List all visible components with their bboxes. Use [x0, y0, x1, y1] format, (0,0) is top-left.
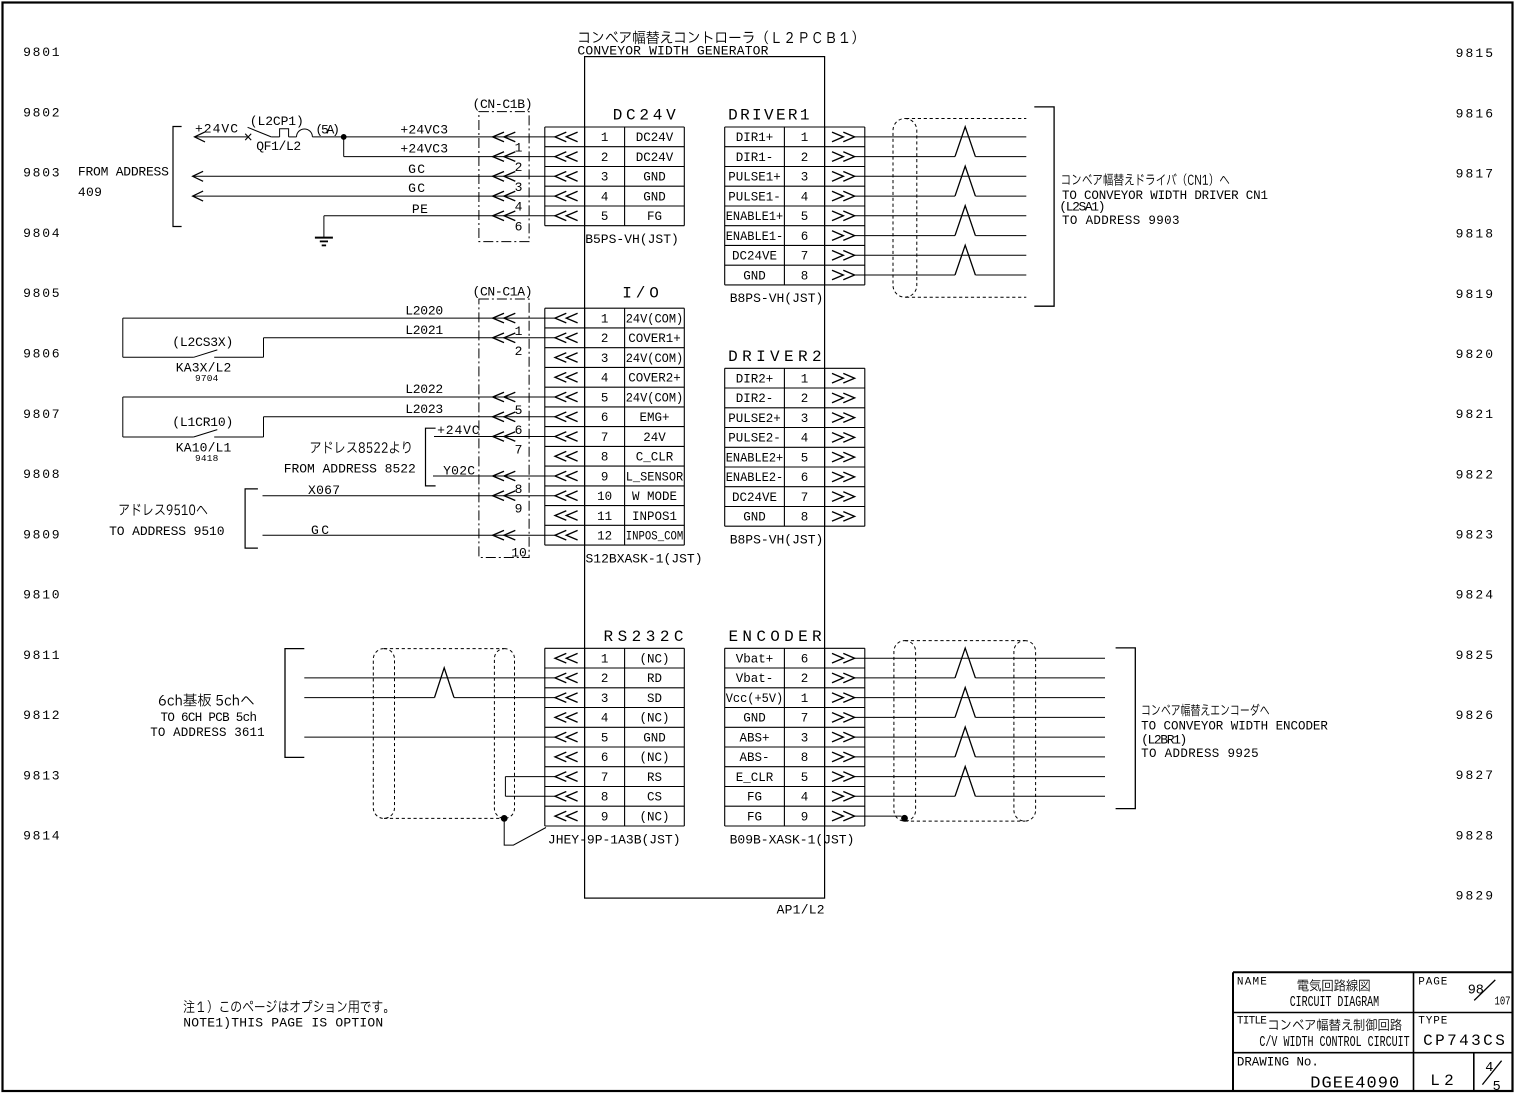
svg-text:11: 11	[597, 510, 612, 524]
svg-text:DIR1+: DIR1+	[736, 131, 774, 145]
shield dotted line top ENCODER	[905, 640, 1025, 642]
svg-text:10: 10	[511, 546, 527, 561]
RS232C pin 3 SD	[555, 693, 578, 703]
svg-text:1: 1	[801, 692, 809, 706]
svg-text:E_CLR: E_CLR	[736, 771, 774, 785]
svg-text:ENABLE1-: ENABLE1-	[726, 230, 784, 244]
document title Japanese C/V width control circuit	[1269, 1019, 1401, 1031]
svg-text:AP1/L2: AP1/L2	[777, 903, 825, 918]
svg-text:2: 2	[801, 151, 809, 165]
I/O pin 11 INPOS1	[555, 511, 578, 521]
svg-text:PULSE1-: PULSE1-	[728, 190, 781, 204]
svg-text:24V(COM): 24V(COM)	[626, 391, 684, 405]
svg-text:(NC): (NC)	[640, 712, 670, 726]
svg-text:(CN-C1A): (CN-C1A)	[473, 284, 533, 299]
svg-text:5: 5	[601, 391, 609, 405]
RS232C pin 1 (NC)	[555, 653, 578, 663]
svg-text:8: 8	[601, 451, 609, 465]
svg-text:3: 3	[601, 171, 609, 185]
note Japanese this page is option	[184, 1000, 388, 1013]
svg-text:24V(COM): 24V(COM)	[626, 312, 684, 326]
svg-text:8: 8	[801, 511, 809, 525]
I/O pin 3 24V(COM)	[555, 353, 578, 363]
svg-text:6: 6	[601, 751, 609, 765]
CN-C1A contact pin 7	[493, 432, 516, 442]
connector table I/O frame	[545, 307, 685, 309]
CN-C1B contact pin 3	[493, 172, 516, 182]
CN-C1B contact pin 4	[493, 191, 516, 201]
svg-text:3: 3	[515, 180, 523, 195]
svg-text:9809: 9809	[23, 527, 60, 542]
svg-text:L_SENSOR: L_SENSOR	[626, 470, 684, 484]
CN-C1B contact pin 1	[493, 132, 516, 142]
svg-text:S12BXASK-1(JST): S12BXASK-1(JST)	[586, 551, 703, 566]
wire +24VC3 to CN-C1B pin1	[344, 136, 555, 138]
svg-text:98: 98	[1468, 984, 1484, 999]
svg-text:ABS+: ABS+	[740, 731, 770, 745]
wire DRIVER1 pair3 signal A	[855, 215, 1027, 217]
svg-text:GND: GND	[643, 731, 666, 745]
svg-text:24V(COM): 24V(COM)	[626, 352, 684, 366]
bracket FROM ADDRESS 409	[173, 127, 182, 227]
svg-text:Y02C: Y02C	[443, 464, 475, 479]
svg-text:9704: 9704	[195, 373, 219, 384]
I/O pin 7 24V	[555, 432, 578, 442]
CN-C1A contact pin 10	[493, 530, 516, 540]
svg-text:DRIVER2: DRIVER2	[728, 348, 822, 366]
wire DRIVER1 pair2 signal B with twist	[855, 195, 955, 197]
svg-text:L2021: L2021	[405, 323, 443, 338]
ENCODER pin 6 Vbat+	[832, 653, 855, 663]
relay contact KA10/L1 (L1CR10) circuit	[122, 397, 124, 437]
svg-text:Vbat+: Vbat+	[736, 653, 774, 667]
svg-text:COVER2+: COVER2+	[628, 372, 681, 386]
svg-text:DIR2-: DIR2-	[736, 392, 774, 406]
svg-text:9804: 9804	[23, 226, 60, 241]
svg-text:3: 3	[601, 692, 609, 706]
svg-text:3: 3	[601, 352, 609, 366]
I/O pin 8 C_CLR	[555, 451, 578, 461]
svg-text:8: 8	[601, 791, 609, 805]
svg-text:L2020: L2020	[405, 303, 443, 318]
svg-text:DIR1-: DIR1-	[736, 151, 774, 165]
twisted pair symbol DRIVER1 pair4	[955, 245, 975, 275]
twisted pair symbol DRIVER1 pair1	[955, 127, 975, 157]
shield cable capsule DRIVER1	[893, 119, 917, 298]
svg-text:409: 409	[78, 185, 102, 200]
svg-text:9: 9	[515, 502, 523, 517]
svg-text:DIR2+: DIR2+	[736, 373, 774, 387]
svg-text:9801: 9801	[23, 45, 60, 60]
shield dotted line bottom ENCODER	[905, 820, 1025, 822]
svg-text:(L2BR1): (L2BR1)	[1141, 732, 1187, 747]
wire branch +24VC3 to pin2	[343, 137, 345, 157]
svg-text:1: 1	[515, 141, 523, 156]
svg-text:PAGE: PAGE	[1418, 976, 1447, 988]
svg-text:PULSE2+: PULSE2+	[728, 412, 781, 426]
svg-text:2: 2	[515, 344, 523, 359]
svg-text:TO ADDRESS 9903: TO ADDRESS 9903	[1062, 214, 1180, 228]
shield dotted line top DRIVER1	[906, 118, 1026, 120]
twisted pair symbol DRIVER1 pair2	[955, 166, 975, 196]
shield junction dot ENCODER	[901, 815, 908, 822]
RS232C pin 4 (NC)	[555, 713, 578, 723]
svg-text:2: 2	[801, 672, 809, 686]
svg-text:2: 2	[601, 151, 609, 165]
shield cable capsule right ENCODER	[1014, 641, 1036, 822]
svg-text:RD: RD	[647, 672, 662, 686]
ENCODER pin 1 Vcc(+5V)	[832, 693, 855, 703]
wire DRIVER1 pair1 signal B with twist	[855, 156, 955, 158]
svg-text:INPOS_COM: INPOS_COM	[626, 530, 684, 544]
wire ENCODER pair1 signal A	[855, 657, 1105, 659]
annotation Japanese address 9510	[120, 504, 208, 516]
svg-text:INPOS1: INPOS1	[632, 510, 677, 524]
svg-text:ENABLE1+: ENABLE1+	[726, 210, 784, 224]
CN-C1A contact pin 8	[493, 471, 516, 481]
svg-text:8: 8	[801, 269, 809, 283]
bracket to conveyor width encoder	[1116, 648, 1136, 809]
svg-text:DRAWING No.: DRAWING No.	[1237, 1056, 1319, 1070]
svg-text:6: 6	[801, 653, 809, 667]
CN-C1B contact pin 6	[493, 211, 516, 221]
svg-text:3: 3	[801, 731, 809, 745]
DRIVER2 pin 2 DIR2-	[832, 393, 855, 403]
annotation Japanese conveyor width driver CN1	[1062, 173, 1229, 185]
svg-text:8: 8	[515, 482, 523, 497]
wire ENCODER pair4 signal A	[855, 776, 1105, 778]
svg-text:4: 4	[801, 190, 809, 204]
connector shell CN-C1B chain-line box	[479, 112, 529, 242]
wire GC pin3 with left arrow	[193, 171, 204, 181]
svg-text:GND: GND	[743, 269, 766, 283]
svg-text:TO 6CH PCB 5ch: TO 6CH PCB 5ch	[161, 711, 258, 725]
svg-text:ENABLE2+: ENABLE2+	[726, 451, 784, 465]
svg-text:1: 1	[801, 373, 809, 387]
svg-text:+24VC3: +24VC3	[400, 142, 448, 157]
wire GC to CN-C1A pin12	[263, 534, 556, 536]
svg-text:JHEY-9P-1A3B(JST): JHEY-9P-1A3B(JST)	[548, 832, 681, 847]
svg-text:7: 7	[601, 431, 609, 445]
svg-text:(CN-C1B): (CN-C1B)	[473, 97, 533, 112]
wire X067 to CN-C1A pin10	[263, 495, 556, 497]
svg-text:(NC): (NC)	[640, 810, 670, 824]
svg-text:PULSE1+: PULSE1+	[728, 171, 781, 185]
svg-text:1: 1	[601, 653, 609, 667]
connector shell CN-C1A chain-line box	[479, 299, 529, 558]
DRIVER2 pin 6 ENABLE2-	[832, 472, 855, 482]
svg-text:EMG+: EMG+	[640, 411, 670, 425]
svg-text:ENABLE2-: ENABLE2-	[726, 471, 784, 485]
wire DRIVER1 pair4 signal B with twist	[855, 274, 955, 276]
jumper wire RS to CS	[505, 776, 555, 778]
I/O pin 6 EMG+	[555, 412, 578, 422]
wire FG pin9 to shield	[855, 815, 902, 817]
svg-text:GND: GND	[643, 190, 666, 204]
wire ENCODER pair2 signal B with twist	[855, 716, 955, 718]
DRIVER2 pin 4 PULSE2-	[832, 433, 855, 443]
ENCODER pin 7 GND	[832, 713, 855, 723]
svg-text:(NC): (NC)	[640, 653, 670, 667]
svg-text:2: 2	[601, 672, 609, 686]
wire Y02C to CN-C1A pin9	[433, 475, 555, 477]
svg-text:L2022: L2022	[405, 382, 443, 397]
svg-text:5: 5	[801, 771, 809, 785]
DC24V pin 1 DC24V	[555, 132, 578, 142]
svg-text:PE: PE	[412, 202, 428, 217]
svg-text:8: 8	[801, 751, 809, 765]
wire DRIVER1 pair1 signal A	[855, 136, 1027, 138]
wire ENCODER pair3 signal B with twist	[855, 756, 955, 758]
svg-text:1: 1	[601, 131, 609, 145]
DC24V pin 5 FG	[555, 211, 578, 221]
RS232C pin 7 RS	[555, 772, 578, 782]
svg-text:RS: RS	[647, 771, 662, 785]
svg-text:CP743CS: CP743CS	[1423, 1032, 1505, 1050]
wire L2023 to CN-C1A pin6	[264, 416, 556, 418]
shield drain junction dot	[501, 815, 508, 822]
svg-text:I/O: I/O	[622, 285, 659, 303]
wire SD to RS232C pin3 with twist	[304, 697, 434, 699]
svg-text:W MODE: W MODE	[632, 490, 677, 504]
DRIVER1 pin 2 DIR1-	[832, 152, 855, 162]
DRIVER2 pin 3 PULSE2+	[832, 413, 855, 423]
document name Japanese circuit diagram	[1298, 979, 1370, 991]
connector table DC24V frame	[545, 126, 685, 128]
wire ENCODER pair1 signal B with twist	[855, 677, 955, 679]
svg-text:+24VC: +24VC	[195, 122, 238, 137]
svg-text:7: 7	[801, 712, 809, 726]
svg-text:DC24VE: DC24VE	[732, 250, 777, 264]
RS232C pin 8 CS	[555, 792, 578, 802]
svg-text:DC24V: DC24V	[613, 107, 676, 125]
svg-text:Vbat-: Vbat-	[736, 672, 774, 686]
svg-text:TO ADDRESS 9510: TO ADDRESS 9510	[109, 524, 224, 539]
svg-text:4: 4	[801, 432, 809, 446]
wire L2021 to CN-C1A pin2	[264, 337, 556, 339]
svg-text:9812: 9812	[23, 708, 60, 723]
CN-C1A contact pin 2	[493, 333, 516, 343]
svg-text:3: 3	[801, 412, 809, 426]
svg-text:(L2SA1): (L2SA1)	[1059, 200, 1105, 215]
shield dotted line bottom DRIVER1	[906, 296, 1026, 298]
DRIVER1 pin 5 ENABLE1+	[832, 211, 855, 221]
DRIVER1 pin 3 PULSE1+	[832, 172, 855, 182]
svg-text:9813: 9813	[23, 769, 60, 784]
shield cable capsule right RS232C	[494, 649, 514, 819]
svg-text:5: 5	[1493, 1080, 1501, 1094]
wire ENCODER pair2 signal A	[855, 697, 1105, 699]
svg-text:(5A): (5A)	[315, 123, 340, 138]
svg-text:3: 3	[801, 171, 809, 185]
svg-text:X067: X067	[308, 483, 340, 498]
svg-text:9821: 9821	[1456, 407, 1494, 422]
svg-text:9803: 9803	[23, 166, 60, 181]
svg-text:(NC): (NC)	[640, 751, 670, 765]
twisted pair symbol ENCODER pair3	[955, 727, 975, 757]
svg-text:9802: 9802	[23, 105, 60, 120]
DRIVER2 pin 7 DC24VE	[832, 492, 855, 502]
svg-text:ABS-: ABS-	[740, 751, 770, 765]
controller board box AP1/L2	[585, 57, 825, 899]
bracket TO ADDRESS 9510	[245, 489, 258, 548]
I/O pin 2 COVER1+	[555, 333, 578, 343]
svg-text:9: 9	[801, 810, 809, 824]
ENCODER pin 9 FG	[832, 811, 855, 821]
I/O pin 5 24V(COM)	[555, 392, 578, 402]
wire ENCODER pair3 signal A	[855, 736, 1105, 738]
wire DRIVER1 pair4 signal A	[855, 254, 1027, 256]
CN-C1A contact pin 5	[493, 392, 516, 402]
CN-C1A contact pin 9	[493, 491, 516, 501]
junction node +24VC3	[341, 134, 347, 140]
svg-text:1: 1	[801, 131, 809, 145]
ENCODER pin 4 FG	[832, 792, 855, 802]
svg-text:7: 7	[515, 443, 523, 458]
DRIVER2 pin 5 ENABLE2+	[832, 452, 855, 462]
svg-text:(L2CP1): (L2CP1)	[250, 114, 304, 129]
wire GND to RS232C pin5	[304, 736, 555, 738]
DRIVER1 pin 4 PULSE1-	[832, 191, 855, 201]
svg-text:GND: GND	[743, 511, 766, 525]
svg-text:GND: GND	[643, 171, 666, 185]
svg-text:9807: 9807	[23, 407, 60, 422]
svg-text:9: 9	[601, 470, 609, 484]
svg-text:NOTE1)THIS PAGE IS OPTION: NOTE1)THIS PAGE IS OPTION	[183, 1016, 383, 1031]
svg-text:6: 6	[601, 411, 609, 425]
breaker QF1/L2 (L2CP1) 5A	[245, 134, 251, 140]
wire +24VC to CN-C1A pin7	[434, 436, 555, 438]
wire PE to pin5	[324, 215, 555, 217]
svg-text:L2023: L2023	[405, 402, 443, 417]
connector table ENCODER frame	[725, 647, 865, 649]
svg-text:COVER1+: COVER1+	[628, 332, 681, 346]
svg-text:12: 12	[597, 530, 612, 544]
ENCODER pin 2 Vbat-	[832, 673, 855, 683]
svg-text:GC: GC	[408, 162, 425, 177]
svg-text:B5PS-VH(JST): B5PS-VH(JST)	[585, 232, 679, 247]
wire L2022 to CN-C1A pin5	[123, 396, 555, 398]
wire DRIVER1 pair3 signal B with twist	[855, 235, 955, 237]
svg-text:Vcc(+5V): Vcc(+5V)	[726, 692, 784, 706]
shield dotted line bottom RS232C	[384, 817, 504, 819]
svg-text:B8PS-VH(JST): B8PS-VH(JST)	[730, 533, 824, 548]
I/O pin 9 L_SENSOR	[555, 471, 578, 481]
svg-text:TYPE: TYPE	[1418, 1016, 1447, 1028]
controller title Japanese	[579, 31, 856, 45]
svg-text:DGEE4090: DGEE4090	[1310, 1074, 1399, 1093]
CN-C1A contact pin 1	[493, 313, 516, 323]
svg-text:2: 2	[601, 332, 609, 346]
CN-C1A contact pin 6	[493, 412, 516, 422]
annotation Japanese 6ch board 5ch	[159, 694, 254, 707]
DRIVER1 pin 6 ENABLE1-	[832, 231, 855, 241]
shield drain wire to connector shell	[504, 818, 546, 845]
annotation Japanese conveyor width encoder	[1142, 704, 1269, 717]
wire RD to RS232C pin2	[304, 677, 555, 679]
bracket to 6ch PCB	[285, 649, 304, 758]
DC24V pin 3 GND	[555, 172, 578, 182]
svg-text:7: 7	[801, 491, 809, 505]
svg-text:C_CLR: C_CLR	[636, 451, 674, 465]
wire L2020 to CN-C1A pin1	[123, 317, 555, 319]
RS232C pin 2 RD	[555, 673, 578, 683]
relay contact KA3X/L2 (L2CS3X) circuit	[122, 318, 124, 357]
DC24V pin 2 DC24V	[555, 152, 578, 162]
twisted pair symbol ENCODER pair1	[955, 648, 975, 678]
svg-text:C/V WIDTH CONTROL CIRCUIT: C/V WIDTH CONTROL CIRCUIT	[1259, 1034, 1409, 1051]
svg-text:9814: 9814	[23, 829, 60, 844]
svg-text:FG: FG	[747, 810, 762, 824]
I/O pin 12 INPOS_COM	[555, 530, 578, 540]
svg-text:9418: 9418	[195, 453, 219, 464]
svg-text:TO ADDRESS 3611: TO ADDRESS 3611	[150, 726, 264, 740]
svg-text:TITLE: TITLE	[1237, 1016, 1267, 1028]
svg-text:10: 10	[597, 490, 612, 504]
ENCODER pin 3 ABS+	[832, 732, 855, 742]
wire ENCODER pair4 signal B with twist	[855, 795, 955, 797]
svg-text:4: 4	[801, 791, 809, 805]
svg-text:9805: 9805	[23, 286, 60, 301]
svg-text:(L2CS3X): (L2CS3X)	[172, 335, 233, 350]
svg-text:6: 6	[801, 230, 809, 244]
svg-text:DC24V: DC24V	[636, 131, 674, 145]
svg-text:2: 2	[801, 392, 809, 406]
svg-text:7: 7	[601, 771, 609, 785]
svg-text:(L1CR10): (L1CR10)	[172, 415, 233, 430]
annotation Japanese address 8522	[311, 441, 411, 453]
svg-text:107: 107	[1495, 995, 1511, 1009]
wire +24VC with left arrow	[195, 132, 206, 142]
RS232C pin 9 (NC)	[555, 811, 578, 821]
svg-text:FROM ADDRESS: FROM ADDRESS	[78, 165, 169, 180]
bracket to conveyor width driver	[1034, 107, 1054, 306]
ENCODER pin 8 ABS-	[832, 752, 855, 762]
svg-text:24V: 24V	[643, 431, 666, 445]
I/O pin 4 COVER2+	[555, 373, 578, 383]
DRIVER2 pin 1 DIR2+	[832, 373, 855, 383]
svg-text:9: 9	[601, 810, 609, 824]
twisted pair symbol ENCODER pair4	[955, 767, 975, 797]
shield cable capsule left ENCODER	[894, 641, 916, 822]
svg-text:4: 4	[1485, 1061, 1493, 1076]
svg-text:CIRCUIT DIAGRAM: CIRCUIT DIAGRAM	[1290, 994, 1379, 1011]
shield dotted line top RS232C	[384, 648, 504, 650]
svg-text:6: 6	[801, 471, 809, 485]
svg-text:+24VC3: +24VC3	[400, 123, 448, 138]
svg-text:QF1/L2: QF1/L2	[256, 139, 301, 154]
svg-text:7: 7	[801, 250, 809, 264]
svg-text:4: 4	[515, 200, 523, 215]
twisted pair symbol RD/SD	[435, 668, 455, 698]
twisted pair symbol ENCODER pair2	[955, 688, 975, 718]
svg-text:DC24VE: DC24VE	[732, 491, 777, 505]
DRIVER1 pin 8 GND	[832, 270, 855, 280]
svg-text:9808: 9808	[23, 467, 60, 482]
CN-C1B contact pin 2	[493, 152, 516, 162]
svg-text:4: 4	[601, 372, 609, 386]
svg-text:1: 1	[515, 324, 523, 339]
svg-text:6: 6	[515, 219, 523, 234]
svg-text:TO ADDRESS 9925: TO ADDRESS 9925	[1141, 747, 1259, 761]
RS232C pin 5 GND	[555, 732, 578, 742]
svg-text:6: 6	[515, 423, 523, 438]
svg-text:9811: 9811	[23, 648, 60, 663]
bracket FROM ADDRESS 8522	[426, 428, 436, 486]
svg-text:4: 4	[601, 712, 609, 726]
DRIVER2 pin 8 GND	[832, 512, 855, 521]
DRIVER1 pin 1 DIR1+	[832, 132, 855, 142]
